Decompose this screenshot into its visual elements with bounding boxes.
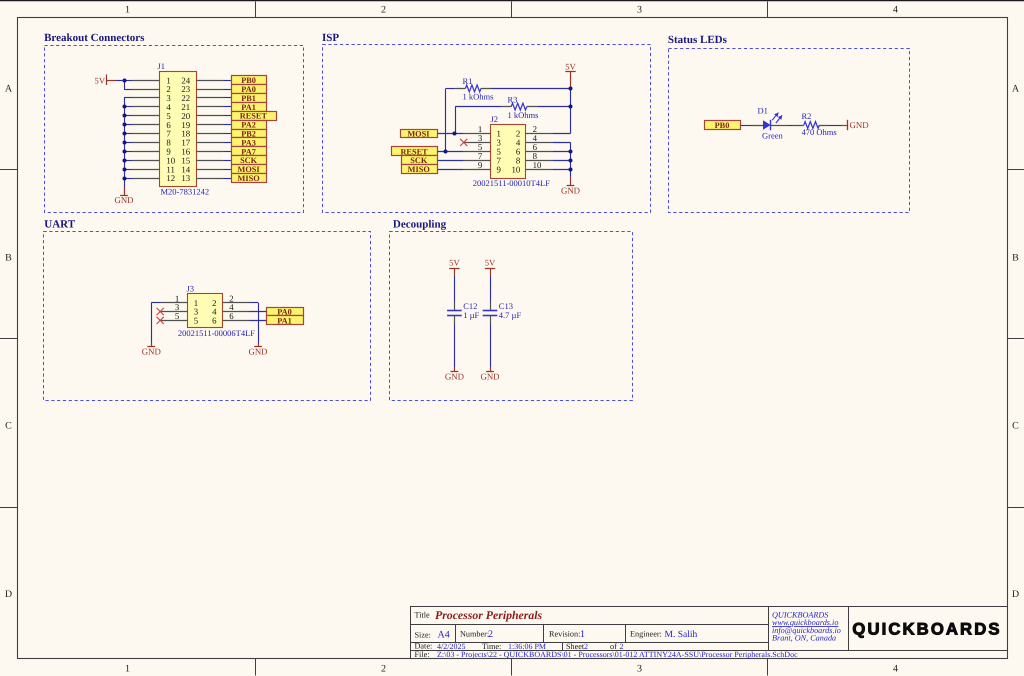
svg-text:UART: UART — [44, 219, 75, 231]
svg-text:R3: R3 — [508, 95, 518, 105]
svg-text:D: D — [5, 589, 12, 600]
svg-text:GND: GND — [248, 346, 267, 356]
svg-text:PB1: PB1 — [241, 94, 256, 103]
svg-text:Z:\03 - Projects\22 - QUICKBOA: Z:\03 - Projects\22 - QUICKBOARDS\01 - P… — [437, 650, 798, 659]
svg-text:PB0: PB0 — [715, 121, 730, 130]
svg-text:PA0: PA0 — [241, 85, 256, 94]
svg-text:1: 1 — [580, 629, 585, 640]
svg-text:5V: 5V — [95, 75, 106, 85]
svg-text:A: A — [1012, 84, 1020, 95]
svg-text:GND: GND — [561, 186, 580, 196]
svg-text:1: 1 — [125, 664, 130, 675]
svg-text:Engineer:: Engineer: — [630, 630, 662, 639]
svg-text:GND: GND — [850, 120, 869, 130]
svg-text:6: 6 — [229, 311, 234, 321]
svg-text:9: 9 — [497, 164, 502, 174]
svg-text:Brant, ON, Canada: Brant, ON, Canada — [772, 634, 836, 643]
svg-text:GND: GND — [114, 195, 133, 205]
svg-text:ISP: ISP — [322, 32, 339, 44]
svg-text:J3: J3 — [187, 284, 195, 294]
svg-text:1: 1 — [125, 5, 130, 16]
svg-text:R1: R1 — [463, 76, 473, 86]
svg-text:A4: A4 — [438, 630, 450, 641]
svg-text:20021511-00010T4LF: 20021511-00010T4LF — [473, 178, 550, 188]
svg-text:10: 10 — [533, 160, 542, 170]
svg-text:Revision:: Revision: — [549, 630, 580, 639]
svg-text:1 kOhms: 1 kOhms — [508, 110, 539, 120]
svg-text:5V: 5V — [565, 61, 576, 71]
svg-text:4.7 µF: 4.7 µF — [499, 310, 522, 320]
svg-text:C: C — [5, 421, 12, 432]
svg-text:MOSI: MOSI — [407, 130, 429, 139]
svg-text:470 Ohms: 470 Ohms — [802, 127, 837, 137]
svg-text:SCK: SCK — [410, 156, 428, 165]
svg-text:C: C — [1012, 421, 1019, 432]
svg-text:3: 3 — [637, 664, 642, 675]
svg-text:GND: GND — [142, 346, 161, 356]
svg-text:A: A — [5, 84, 13, 95]
svg-text:Decoupling: Decoupling — [393, 219, 447, 231]
svg-text:12: 12 — [166, 173, 175, 183]
svg-text:5V: 5V — [449, 258, 460, 268]
svg-text:PA2: PA2 — [241, 121, 256, 130]
svg-text:M. Salih: M. Salih — [665, 630, 698, 640]
svg-text:Processor Peripherals: Processor Peripherals — [435, 608, 543, 622]
svg-text:6: 6 — [212, 316, 217, 326]
svg-text:PB0: PB0 — [241, 76, 256, 85]
svg-text:MISO: MISO — [408, 165, 431, 174]
svg-text:Green: Green — [762, 130, 784, 140]
svg-text:Breakout Connectors: Breakout Connectors — [44, 32, 145, 44]
svg-text:13: 13 — [181, 173, 190, 183]
svg-text:J1: J1 — [158, 61, 166, 71]
svg-text:Size:: Size: — [415, 630, 431, 639]
svg-text:9: 9 — [478, 160, 483, 170]
svg-text:M20-7831242: M20-7831242 — [161, 186, 210, 196]
svg-text:10: 10 — [512, 164, 521, 174]
svg-text:SCK: SCK — [240, 156, 258, 165]
svg-text:2: 2 — [381, 5, 386, 16]
svg-text:4: 4 — [893, 664, 898, 675]
svg-text:GND: GND — [480, 372, 499, 382]
svg-text:File:: File: — [415, 650, 430, 659]
svg-text:4: 4 — [893, 5, 898, 16]
svg-text:J2: J2 — [491, 114, 499, 124]
svg-text:RESET: RESET — [240, 112, 268, 121]
svg-text:1 µF: 1 µF — [463, 310, 479, 320]
svg-text:Status LEDs: Status LEDs — [668, 34, 728, 46]
svg-text:3: 3 — [637, 5, 642, 16]
svg-text:PA1: PA1 — [277, 316, 292, 325]
svg-text:Title: Title — [415, 611, 431, 620]
svg-text:MOSI: MOSI — [238, 165, 260, 174]
svg-text:5: 5 — [175, 311, 180, 321]
svg-text:20021511-00006T4LF: 20021511-00006T4LF — [178, 328, 255, 338]
svg-text:5: 5 — [194, 316, 199, 326]
svg-text:R2: R2 — [802, 111, 812, 121]
svg-text:2: 2 — [488, 629, 493, 640]
svg-text:B: B — [5, 253, 12, 264]
svg-text:D: D — [1012, 589, 1019, 600]
svg-text:5V: 5V — [485, 258, 496, 268]
svg-text:GND: GND — [445, 372, 464, 382]
svg-text:QUICKBOARDS: QUICKBOARDS — [852, 620, 1001, 639]
svg-text:B: B — [1012, 253, 1019, 264]
svg-text:MISO: MISO — [238, 174, 261, 183]
svg-text:1 kOhms: 1 kOhms — [463, 91, 494, 101]
svg-text:D1: D1 — [758, 106, 768, 116]
svg-text:2: 2 — [381, 664, 386, 675]
svg-text:PA1: PA1 — [241, 103, 256, 112]
svg-text:Number:: Number: — [460, 630, 489, 639]
